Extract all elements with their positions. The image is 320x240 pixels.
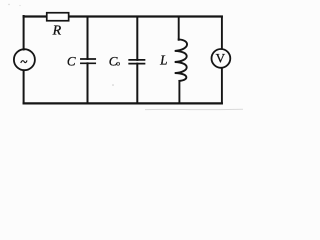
wire right branch upper — [221, 17, 223, 49]
capacitor Co — [129, 60, 144, 64]
wire Co branch lower — [136, 64, 138, 104]
inductor L — [175, 39, 187, 81]
wire top rail — [23, 15, 223, 17]
wire right branch lower — [221, 68, 223, 103]
wire L branch upper — [178, 17, 180, 40]
AC source G1 — [14, 49, 35, 70]
svg-text:C: C — [67, 54, 76, 69]
wire C branch upper — [87, 17, 89, 60]
wire left branch upper — [23, 16, 25, 50]
wire Co branch upper — [136, 17, 138, 60]
svg-text:V: V — [216, 51, 226, 66]
voltmeter V — [212, 49, 231, 68]
svg-text:L: L — [159, 53, 167, 68]
svg-text:o: o — [116, 59, 120, 68]
wire C branch lower — [87, 63, 89, 103]
scan noise streak below bottom rail — [145, 108, 243, 110]
scan specks top-left — [8, 4, 9, 5]
wire L branch lower — [178, 81, 180, 104]
capacitor C — [81, 59, 95, 63]
resistor R — [47, 13, 69, 21]
wire left branch lower — [23, 71, 25, 104]
wire bottom rail — [23, 102, 223, 104]
svg-text:R: R — [52, 24, 62, 39]
